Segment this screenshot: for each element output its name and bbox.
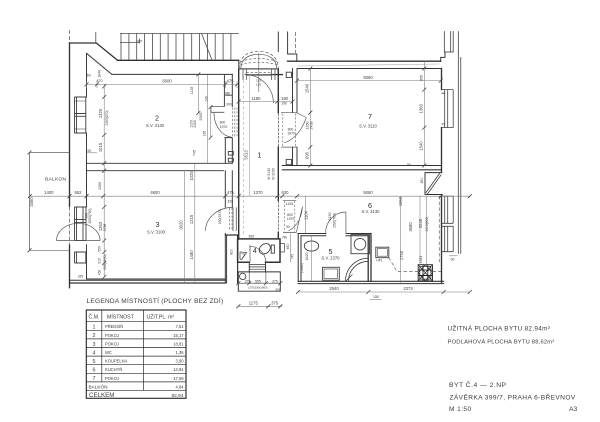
svg-text:450: 450 xyxy=(98,270,102,276)
svg-text:PŘEDSÍŇ: PŘEDSÍŇ xyxy=(105,324,123,329)
stair landing line xyxy=(120,42,140,44)
svg-text:150: 150 xyxy=(373,295,379,299)
svg-text:1970: 1970 xyxy=(220,125,228,129)
svg-text:MÍSTNOST: MÍSTNOST xyxy=(107,313,135,320)
svg-text:190: 190 xyxy=(281,102,287,106)
dim chain y196 full width xyxy=(30,195,470,197)
chamfer diagonal xyxy=(426,174,441,195)
svg-text:S.V. 3130: S.V. 3130 xyxy=(361,209,380,214)
svg-text:KUCHYŇ: KUCHYŇ xyxy=(105,367,122,372)
svg-text:320: 320 xyxy=(227,200,233,204)
svg-text:540: 540 xyxy=(85,213,89,219)
wall niche WC left xyxy=(225,235,237,283)
svg-text:1,36: 1,36 xyxy=(176,350,185,355)
canopy inner dashes xyxy=(241,59,278,62)
entrance door leaf xyxy=(245,74,274,76)
svg-text:Č.M.: Č.M. xyxy=(89,313,100,320)
radiator room7 a xyxy=(286,72,291,77)
wall top-left outer with chamfer xyxy=(70,43,118,60)
svg-text:4800: 4800 xyxy=(150,190,160,195)
canopy base line xyxy=(239,68,278,70)
svg-text:1360: 1360 xyxy=(418,103,423,113)
kitchen stove (hatched) xyxy=(418,265,432,281)
svg-text:S.V. 3110: S.V. 3110 xyxy=(359,124,377,129)
stair walk line tick xyxy=(137,39,142,44)
wall bottom room3 outer xyxy=(70,282,226,284)
svg-text:1425: 1425 xyxy=(286,202,294,206)
door hall to room7 niche xyxy=(281,113,297,147)
kitchen dashed work line xyxy=(389,258,418,272)
svg-text:UŽIT.PL. m²: UŽIT.PL. m² xyxy=(147,312,175,320)
svg-text:3,90: 3,90 xyxy=(176,359,185,364)
svg-text:W 3095: W 3095 xyxy=(272,168,276,180)
dim kitchen verticals xyxy=(401,196,427,283)
wall WC box xyxy=(238,239,280,262)
svg-text:90: 90 xyxy=(286,225,290,229)
svg-text:UŽITNÁ PLOCHA BYTU 82,94m²: UŽITNÁ PLOCHA BYTU 82,94m² xyxy=(448,324,551,333)
svg-text:2240: 2240 xyxy=(418,218,423,228)
svg-text:800(1970): 800(1970) xyxy=(218,209,222,224)
rotated dimension labels xyxy=(29,70,455,279)
entrance door arc xyxy=(245,75,274,104)
wall bath right / kitchen left xyxy=(368,234,371,282)
svg-text:CELKEM: CELKEM xyxy=(89,392,114,399)
dim room3 interior verticals xyxy=(185,163,195,283)
svg-text:5060: 5060 xyxy=(363,190,373,195)
svg-text:BYT Č.4 — 2.NP: BYT Č.4 — 2.NP xyxy=(449,380,507,389)
wall stairwell risers above entrance xyxy=(278,32,297,61)
svg-text:1300: 1300 xyxy=(98,182,102,190)
svg-text:3020: 3020 xyxy=(179,220,184,230)
svg-text:2030(760): 2030(760) xyxy=(333,213,337,228)
bath shower quarter xyxy=(346,258,369,281)
wall entrance left jamb xyxy=(238,60,240,69)
svg-text:5060: 5060 xyxy=(363,75,373,80)
svg-text:300: 300 xyxy=(226,102,232,106)
svg-text:125: 125 xyxy=(256,83,261,87)
wall kitchen corner window chamfer xyxy=(425,173,442,195)
svg-text:1540: 1540 xyxy=(304,83,309,93)
svg-text:650: 650 xyxy=(286,244,290,250)
svg-text:2480: 2480 xyxy=(193,120,197,128)
wall room2/3 right face A xyxy=(225,138,226,283)
svg-text:A3: A3 xyxy=(569,406,578,413)
dim chain top room2 xyxy=(87,83,238,85)
wall stairs bottom xyxy=(118,59,239,61)
svg-text:1370: 1370 xyxy=(253,190,263,195)
legend column lines xyxy=(102,310,144,390)
svg-text:375: 375 xyxy=(245,279,251,283)
stair left edge xyxy=(96,32,121,60)
door hall to room2 leaf bar xyxy=(211,107,224,113)
svg-text:BALKÓN: BALKÓN xyxy=(89,383,108,389)
svg-text:4,84: 4,84 xyxy=(176,385,185,390)
WC toilet xyxy=(257,241,272,256)
entrance steps xyxy=(243,69,275,80)
radiator room2 b xyxy=(228,158,233,162)
wall right step top xyxy=(441,52,445,61)
svg-text:2390(870): 2390(870) xyxy=(105,110,109,125)
dim right 90 xyxy=(449,255,458,257)
door hall to corridor jambs dashed xyxy=(285,201,295,232)
svg-text:555: 555 xyxy=(255,279,261,283)
dashed left wall across balcony door xyxy=(69,207,71,246)
svg-text:7: 7 xyxy=(368,112,372,121)
door hall to room2 swing xyxy=(214,112,232,137)
wall left exterior outer xyxy=(69,43,71,288)
svg-text:325: 325 xyxy=(78,275,84,279)
window room7 right xyxy=(442,90,454,128)
stair break line xyxy=(202,34,213,61)
door hall to room7 jambs dashed xyxy=(283,114,296,147)
window room2 xyxy=(75,97,87,133)
svg-text:HPL: HPL xyxy=(376,259,382,263)
canopy inner solid arch xyxy=(241,54,277,69)
svg-text:1620: 1620 xyxy=(305,253,309,261)
svg-text:7: 7 xyxy=(93,376,96,382)
balcony door swing semicircle xyxy=(57,223,101,240)
svg-text:6: 6 xyxy=(93,368,96,374)
svg-text:PODLAHOVÁ PLOCHA BYTU 88,62m²: PODLAHOVÁ PLOCHA BYTU 88,62m² xyxy=(448,339,555,346)
wall top-left inner chamfer xyxy=(87,53,112,74)
bath basin xyxy=(304,241,318,251)
svg-text:2110(600): 2110(600) xyxy=(425,217,429,232)
svg-text:15,17: 15,17 xyxy=(173,333,184,338)
svg-text:1180: 1180 xyxy=(251,96,261,101)
wall room7 top inner xyxy=(297,68,442,70)
door room2 wall jog xyxy=(224,74,232,137)
svg-text:60: 60 xyxy=(87,74,91,78)
dim ticks y196 xyxy=(28,67,472,309)
svg-text:380: 380 xyxy=(225,91,231,95)
svg-text:5: 5 xyxy=(93,359,96,365)
svg-text:150: 150 xyxy=(86,149,92,153)
svg-text:1320: 1320 xyxy=(98,108,103,118)
dim bath corridor vertical xyxy=(290,196,311,281)
svg-text:S.V. 3130: S.V. 3130 xyxy=(146,123,165,128)
wall left inner xyxy=(86,53,88,279)
chimney verticals top right xyxy=(444,32,458,53)
wall bath left xyxy=(298,234,301,282)
svg-text:1128: 1128 xyxy=(190,87,194,95)
wall vestibule neck xyxy=(249,262,265,272)
dim chain top room7 xyxy=(297,80,441,82)
dim room2 left vertical xyxy=(103,84,105,277)
svg-text:820: 820 xyxy=(230,249,234,255)
svg-text:3: 3 xyxy=(93,342,96,348)
svg-text:82,94: 82,94 xyxy=(171,393,183,399)
wall between room7 and kitchen xyxy=(282,166,441,170)
svg-text:565: 565 xyxy=(275,288,280,292)
svg-text:745: 745 xyxy=(193,150,197,156)
svg-text:2373: 2373 xyxy=(403,286,413,291)
svg-text:4: 4 xyxy=(93,350,96,356)
door room3 leaf strip xyxy=(233,207,236,231)
window right mid xyxy=(442,196,454,223)
svg-text:745: 745 xyxy=(291,254,295,260)
kitchen counter box xyxy=(376,247,389,258)
svg-text:POKOJ: POKOJ xyxy=(105,333,119,338)
svg-text:1015: 1015 xyxy=(98,142,103,152)
svg-text:870: 870 xyxy=(97,79,103,83)
dim left 150 room2 xyxy=(87,152,98,154)
svg-text:W 3143: W 3143 xyxy=(267,168,271,180)
svg-text:1400: 1400 xyxy=(44,190,54,195)
svg-text:375: 375 xyxy=(271,301,279,306)
dim room2 interior vertical xyxy=(207,74,209,163)
svg-text:2940: 2940 xyxy=(329,286,339,291)
wall bath top xyxy=(298,234,371,236)
svg-text:2798: 2798 xyxy=(103,224,107,232)
wall right facade inner xyxy=(441,69,443,283)
svg-text:M 1:50: M 1:50 xyxy=(449,406,472,413)
svg-text:820: 820 xyxy=(248,245,252,250)
wall entrance right jamb xyxy=(271,69,283,75)
svg-text:90: 90 xyxy=(451,258,455,262)
svg-text:1175: 1175 xyxy=(249,301,259,306)
svg-text:13,94: 13,94 xyxy=(173,367,184,372)
svg-text:780: 780 xyxy=(282,235,288,239)
svg-text:5600: 5600 xyxy=(162,79,172,84)
svg-text:BALKON: BALKON xyxy=(45,177,67,183)
window kitchen right xyxy=(442,226,454,251)
wall hall right xyxy=(277,69,279,238)
bath boiler circle xyxy=(354,238,366,250)
svg-text:WC: WC xyxy=(105,350,112,355)
svg-text:4: 4 xyxy=(253,246,257,255)
stair top line xyxy=(120,33,239,35)
svg-text:1: 1 xyxy=(257,151,261,160)
bath washer xyxy=(322,267,339,280)
window sill room2 xyxy=(75,101,86,129)
svg-text:1025: 1025 xyxy=(189,171,194,181)
door hall to room3 xyxy=(206,207,234,230)
wall hall left xyxy=(238,69,240,239)
svg-text:1480: 1480 xyxy=(189,250,194,260)
dim room7 left vertical xyxy=(309,69,311,166)
svg-text:S.V. 3100: S.V. 3100 xyxy=(147,230,166,235)
svg-text:ZÁVĚRKA 399/7, PRAHA 6-BŘEVNOV: ZÁVĚRKA 399/7, PRAHA 6-BŘEVNOV xyxy=(450,392,576,401)
svg-text:1540: 1540 xyxy=(418,141,423,151)
svg-text:5265: 5265 xyxy=(199,113,203,121)
svg-text:90: 90 xyxy=(407,163,411,167)
wall bottom kitchen/bath xyxy=(298,281,444,283)
svg-text:18,81: 18,81 xyxy=(173,341,184,346)
svg-text:1750: 1750 xyxy=(399,250,404,260)
svg-text:1950: 1950 xyxy=(398,196,403,206)
dim room7 right vertical xyxy=(423,61,425,165)
dim room2 right vertical xyxy=(198,74,210,137)
svg-text:POKOJ: POKOJ xyxy=(105,376,119,381)
vestibule inner dividers xyxy=(238,272,280,283)
legend row lines xyxy=(86,322,186,391)
svg-text:600(1800): 600(1800) xyxy=(103,254,107,269)
svg-text:830: 830 xyxy=(249,234,255,238)
door corridor to bath xyxy=(326,212,346,233)
svg-text:145: 145 xyxy=(205,96,209,102)
svg-text:(1340): (1340) xyxy=(300,263,304,273)
svg-text:550: 550 xyxy=(98,246,102,252)
dashed line stairwell xyxy=(295,32,297,53)
svg-text:3130: 3130 xyxy=(328,213,332,221)
WC corner sink xyxy=(240,252,247,260)
svg-text:552: 552 xyxy=(75,190,83,195)
svg-text:KOUPELNA: KOUPELNA xyxy=(105,359,128,364)
svg-text:1: 1 xyxy=(93,325,96,331)
wall vestibule box xyxy=(238,272,280,291)
svg-text:695: 695 xyxy=(304,151,309,159)
svg-text:7,51: 7,51 xyxy=(176,324,185,329)
radiator WC right xyxy=(280,244,285,253)
legend outer border xyxy=(86,310,186,398)
dim top60 xyxy=(87,81,238,88)
door room3 dashed jambs xyxy=(230,208,233,231)
svg-text:165: 165 xyxy=(203,131,207,137)
svg-text:450: 450 xyxy=(420,178,424,184)
dim balcony vertical xyxy=(29,153,31,251)
svg-text:475: 475 xyxy=(227,190,235,195)
svg-text:2800(760): 2800(760) xyxy=(88,208,92,223)
bath boiler box xyxy=(351,235,370,254)
wall room2 top inner xyxy=(112,73,232,75)
wall bottom room3 xyxy=(70,279,226,280)
facade parapet faint line xyxy=(298,64,439,66)
door WC xyxy=(250,246,266,262)
svg-text:1970: 1970 xyxy=(287,217,295,221)
dim bottom WC y306 xyxy=(238,305,282,307)
wall top right section outer xyxy=(288,60,441,62)
svg-text:3460: 3460 xyxy=(29,197,34,207)
svg-text:(270)180(1800): (270)180(1800) xyxy=(248,285,267,289)
svg-text:2: 2 xyxy=(155,114,159,123)
balcony outline xyxy=(30,153,70,251)
door hall to room7 swing xyxy=(284,113,306,143)
svg-text:1970: 1970 xyxy=(287,132,295,136)
svg-text:1640: 1640 xyxy=(97,70,101,78)
svg-text:3: 3 xyxy=(156,220,160,229)
dim small 150 below kitchen xyxy=(370,299,382,301)
dim entrance y104 xyxy=(239,101,293,103)
svg-text:375: 375 xyxy=(272,279,278,283)
svg-text:190: 190 xyxy=(281,96,289,101)
wall hall right dashed at openings xyxy=(277,114,279,233)
neck sill lines xyxy=(249,265,265,270)
radiator room7 b xyxy=(286,159,291,164)
property dashed line above left wall xyxy=(69,30,71,43)
window room3 low xyxy=(75,252,87,263)
svg-text:POKOJ: POKOJ xyxy=(105,341,119,346)
balcony door frame xyxy=(75,207,87,241)
stair treads xyxy=(129,34,231,61)
svg-text:1353: 1353 xyxy=(419,256,423,264)
svg-text:S.V. 2370: S.V. 2370 xyxy=(321,255,340,260)
svg-text:475: 475 xyxy=(227,79,235,84)
svg-text:2438: 2438 xyxy=(310,122,314,130)
canopy dome outline xyxy=(239,51,278,69)
svg-text:2: 2 xyxy=(93,333,96,339)
door hall to room2 dashed jambs xyxy=(232,108,237,138)
right facade outer lines xyxy=(458,52,461,254)
svg-text:855: 855 xyxy=(419,75,423,81)
svg-text:1215: 1215 xyxy=(189,214,194,224)
dashed kitchen right counter xyxy=(438,196,440,264)
wall room2/3 right face B xyxy=(231,74,233,207)
svg-text:LEGENDA MÍSTNOSTÍ (PLOCHY BEZ: LEGENDA MÍSTNOSTÍ (PLOCHY BEZ ZDÍ) xyxy=(87,296,224,305)
door hall to corridor swing xyxy=(289,207,303,233)
dim bottom kitchen y292 xyxy=(298,291,470,293)
vestibule pipe circle xyxy=(240,273,246,279)
wall between rooms 2 and 3 xyxy=(87,163,233,170)
radiator room2 a xyxy=(228,152,233,156)
svg-text:3680: 3680 xyxy=(408,222,413,232)
svg-text:17,69: 17,69 xyxy=(173,376,184,381)
door hall to corridor niche xyxy=(283,200,296,232)
wall room7 left xyxy=(293,69,298,166)
svg-text:910: 910 xyxy=(98,258,102,264)
svg-text:5513: 5513 xyxy=(244,150,249,160)
svg-text:630: 630 xyxy=(282,190,290,195)
svg-text:1104: 1104 xyxy=(303,210,308,220)
